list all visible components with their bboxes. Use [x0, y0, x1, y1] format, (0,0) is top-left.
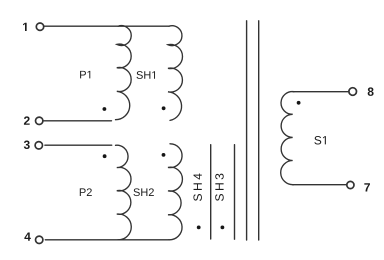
pin 4 terminal circle [36, 236, 43, 243]
wire pin3 [45, 144, 112, 146]
pin 1 terminal circle [36, 23, 43, 30]
label SH2 [134, 188, 154, 196]
pin number 3 [24, 141, 30, 150]
pin number 8 [368, 87, 374, 96]
phase dot SH1 [162, 106, 166, 110]
pin 7 terminal circle [347, 181, 354, 188]
pin 3 terminal circle [35, 142, 42, 149]
label S1 [314, 136, 326, 145]
pin 2 terminal circle [36, 117, 43, 124]
wire pin4 to P2/SH2 bottom [45, 239, 169, 241]
winding P2 [116, 145, 132, 240]
shield SH4 line [210, 145, 212, 239]
wire pin1 to windings P1/SH1 top [44, 25, 169, 27]
shield SH3 line [234, 145, 236, 240]
winding SH1 [168, 26, 182, 121]
winding S1 [281, 92, 294, 185]
winding SH2 [168, 144, 182, 240]
pin number 2 [24, 116, 30, 124]
label P1 [80, 71, 90, 79]
label SH4 (rotated) [193, 174, 202, 201]
label SH1 [137, 71, 156, 79]
label SH3 (rotated) [215, 174, 224, 201]
pin number 4 [24, 232, 30, 240]
phase dot SH4 [197, 226, 201, 230]
label P2 [80, 188, 92, 196]
wire pin2 [44, 120, 112, 122]
phase dot SH2 [162, 153, 166, 157]
pin 8 terminal circle [349, 88, 357, 96]
wire S1 to pin 7 [293, 184, 347, 186]
phase dot SH3 [221, 226, 225, 230]
phase dot S1 [297, 101, 301, 105]
phase dot P1 [103, 107, 107, 111]
pin number 1 [23, 23, 27, 31]
winding P1 [116, 26, 132, 120]
pin number 7 [364, 183, 370, 191]
phase dot P2 [103, 154, 107, 158]
core line left [246, 21, 248, 240]
wire S1 to pin 8 [293, 91, 349, 93]
core line right [258, 21, 260, 240]
